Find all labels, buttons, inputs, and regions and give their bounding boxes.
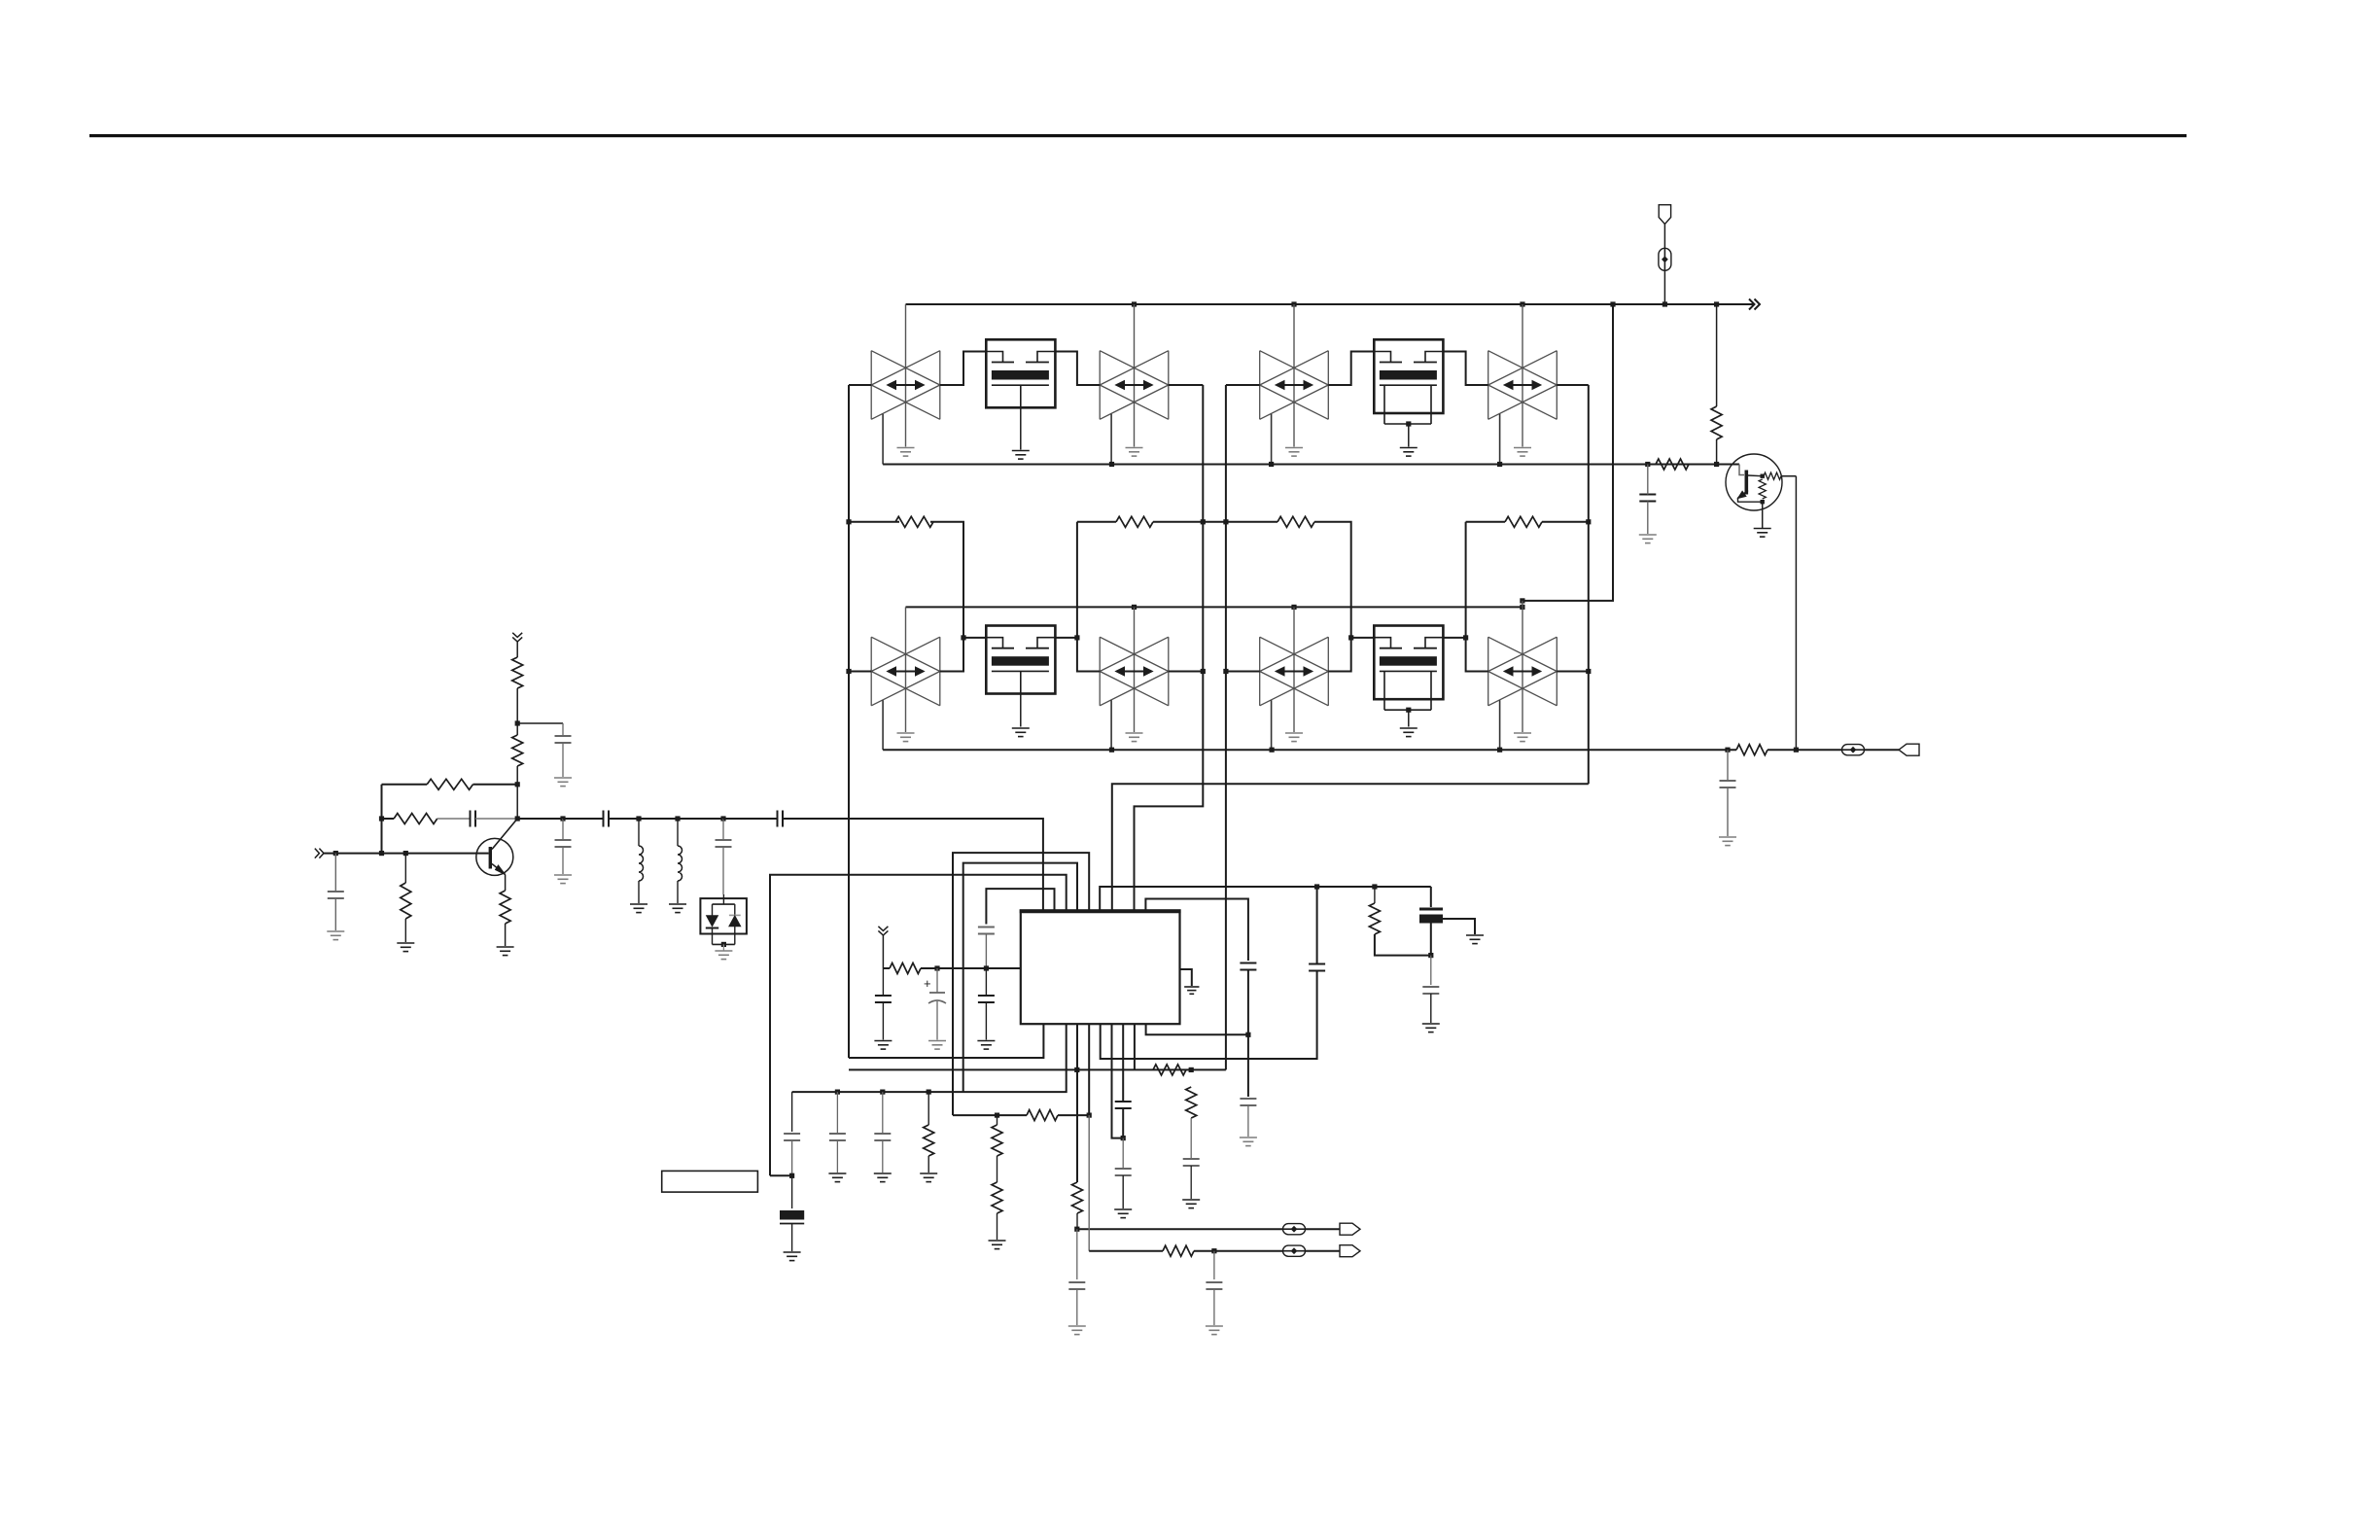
dual-gate MOSFET Q1 bbox=[986, 339, 1055, 407]
ground R5a bbox=[497, 947, 514, 956]
wire C13 gnd bbox=[791, 1224, 793, 1252]
wire pin1143 jog bbox=[1112, 1024, 1124, 1137]
wire bus to SW5 center bbox=[905, 607, 907, 732]
wire right loop top bbox=[1145, 899, 1248, 962]
connector P3 bbox=[1340, 1223, 1360, 1235]
junction mid/vert1634 bbox=[1586, 519, 1591, 524]
wire mid line C bbox=[1466, 521, 1505, 523]
capacitor C13 tantalum bbox=[780, 1210, 804, 1224]
capacitor C14 bbox=[829, 1134, 846, 1140]
junction output/Q5 bbox=[1794, 748, 1799, 752]
ground C15 bbox=[874, 1173, 892, 1182]
ground L2 bbox=[669, 904, 686, 913]
ground SW8 bbox=[1514, 733, 1531, 742]
wire Q5 emitter to ground bbox=[1762, 502, 1764, 528]
wire C11 gnd bbox=[936, 1001, 938, 1040]
wire C18 gnd bbox=[1213, 1289, 1215, 1325]
transistor Q6 circle bbox=[476, 838, 513, 875]
node row2 bus SW6 bbox=[1132, 605, 1137, 610]
wire C13 top bbox=[791, 1175, 793, 1208]
junction y1147 R12 bbox=[995, 1113, 999, 1118]
wire Q6 emitter diag bbox=[492, 864, 506, 875]
IC right pin to ground bbox=[1180, 969, 1192, 986]
wire output1 to pill bbox=[1767, 749, 1841, 751]
ground SW3 bbox=[1285, 448, 1303, 457]
junction Q5 emitter bbox=[1761, 500, 1765, 504]
junction SW6 right bbox=[1201, 669, 1206, 674]
junction SW5 left bbox=[846, 669, 851, 674]
bowtie switch SW6 bbox=[1100, 637, 1169, 706]
svg-text:+: + bbox=[924, 976, 931, 991]
resistor Q5 internal horizontal bbox=[1764, 472, 1781, 479]
ground C25 bbox=[1240, 1137, 1257, 1146]
wire row1 bottom bus bbox=[883, 464, 1739, 466]
wire drop SW1 to lower bus bbox=[882, 414, 884, 465]
wire y994 segB bbox=[921, 967, 1021, 969]
wire main segD bbox=[517, 818, 563, 820]
wire R10 gnd bbox=[927, 1156, 929, 1172]
wire Q5 collector bbox=[1748, 474, 1763, 477]
resistor R9 bbox=[890, 963, 921, 974]
wire bias vertical bbox=[381, 785, 383, 854]
junction SW8 right bbox=[1586, 669, 1591, 674]
resistor R21 on bus bbox=[1656, 459, 1689, 470]
junction bottom bus SW2 bbox=[1109, 462, 1114, 467]
wire R5a gnd bbox=[505, 924, 507, 946]
arrow supply VB1 bbox=[512, 633, 522, 642]
wire R2a-R3a bbox=[516, 688, 518, 735]
ground C18 bbox=[1206, 1326, 1223, 1335]
arrow off-page right bbox=[1749, 299, 1760, 310]
junction collector node bbox=[515, 816, 520, 821]
wire C6 to D1 bbox=[722, 847, 724, 894]
resistor R1a bbox=[401, 883, 411, 919]
junction gate node M3 right bbox=[1074, 635, 1079, 640]
wire C15 gnd bbox=[882, 1140, 884, 1172]
wire left vertical bus x873 bbox=[848, 385, 850, 1058]
junction y912 R18 bbox=[1372, 884, 1377, 889]
wire R18 top bbox=[1374, 887, 1376, 903]
capacitor C6 bbox=[716, 840, 732, 847]
wire base Q5 bbox=[1739, 465, 1744, 475]
wire C10 top bbox=[882, 968, 884, 996]
junction SW7 left bbox=[1223, 669, 1228, 674]
wire C20 to ground bbox=[1647, 502, 1649, 535]
resistor R5a emitter bbox=[500, 891, 510, 924]
junction y1123 C14 bbox=[835, 1090, 840, 1095]
wire SW2 right lead bbox=[1169, 384, 1204, 386]
ground L1 bbox=[630, 904, 647, 913]
junction main C6 bbox=[720, 816, 725, 821]
junction RC/base vert bbox=[379, 816, 384, 821]
junction row2 bus SW8 bbox=[1520, 605, 1524, 610]
junction D1 out bbox=[721, 942, 726, 947]
junction row2 bus SW8 bbox=[1497, 748, 1502, 752]
junction L4 node bbox=[984, 965, 989, 970]
wire mid line B left vert bbox=[1076, 522, 1078, 638]
node top bus / branch to row2 bbox=[1610, 301, 1615, 306]
wire main segF bbox=[609, 818, 639, 820]
junction y1147 pin bbox=[1087, 1113, 1092, 1118]
wire pin1120 down bbox=[1088, 1024, 1090, 1115]
wire C2 gnd bbox=[562, 743, 564, 777]
wire C10 gnd bbox=[882, 1002, 884, 1040]
arrow supply VB2 bbox=[878, 927, 888, 935]
wire mid B cont bbox=[1153, 521, 1277, 523]
capacitor C4 bbox=[555, 840, 572, 847]
wire Q2 source to ground bbox=[1408, 424, 1410, 447]
wire Q2 to SW4 step bbox=[1443, 352, 1487, 386]
junction output node C21 bbox=[1725, 748, 1730, 752]
ground SW2 bbox=[1126, 448, 1143, 457]
wire row2 bottom bus bbox=[883, 749, 1736, 751]
wire pin1131 loop bbox=[1101, 971, 1317, 1060]
node top bus / SW4 bbox=[1520, 301, 1524, 306]
inductor L1 bbox=[639, 846, 644, 881]
test point pill P3 bbox=[1283, 1224, 1306, 1235]
wire C19 top bbox=[1316, 887, 1318, 964]
ground Q3 bbox=[1012, 728, 1030, 737]
ground SW4 bbox=[1514, 448, 1531, 457]
wire R12-R13 bbox=[997, 1156, 998, 1182]
ground C9 bbox=[977, 1041, 995, 1050]
wire L1 gnd bbox=[638, 881, 640, 903]
wire R15 down bbox=[1190, 1118, 1192, 1158]
wire C4 top bbox=[562, 819, 564, 840]
capacitor C9 bbox=[978, 996, 995, 1002]
wire input line bbox=[324, 853, 489, 855]
IC U1 box bbox=[1020, 910, 1181, 1024]
wire SW5 left lead bbox=[849, 671, 871, 673]
wire mid A to gate node bbox=[930, 522, 963, 638]
wire row2 bus riser bbox=[1522, 304, 1613, 601]
wire C27 gnd bbox=[1430, 994, 1432, 1023]
wire main segH bbox=[678, 818, 723, 820]
wire mid line C vert bbox=[1465, 522, 1467, 638]
junction bottom bus C node bbox=[1645, 462, 1650, 467]
ground C2 bbox=[554, 778, 572, 787]
wire L1 top bbox=[638, 819, 640, 846]
wire C25 gnd bbox=[1247, 1105, 1249, 1137]
wire C14 top bbox=[836, 1092, 838, 1134]
wire outer loop jog bbox=[770, 1174, 792, 1176]
wire D1 out bbox=[722, 944, 724, 950]
junction main L2 bbox=[675, 816, 680, 821]
wire y1147 line bbox=[953, 1114, 1027, 1116]
wire Q4 source to ground bbox=[1408, 710, 1410, 726]
wire C1 top bbox=[334, 854, 336, 892]
wire pin1166 down bbox=[1134, 1024, 1136, 1069]
junction bias cap bbox=[515, 720, 520, 725]
wire bus to SW8 center bbox=[1522, 607, 1523, 732]
wire y912 corner down bbox=[1430, 887, 1432, 907]
wire C26 tap bbox=[1443, 919, 1475, 934]
junction mid/vert1237 bbox=[1201, 519, 1206, 524]
connector flag P1 bbox=[1659, 205, 1670, 225]
wire output line B lead bbox=[1089, 1250, 1163, 1252]
junction input bias bbox=[379, 851, 384, 856]
ground D1 bbox=[715, 951, 732, 960]
junction row2 bus SW6 bbox=[1109, 748, 1114, 752]
test point pill P2 bbox=[1842, 745, 1865, 755]
wire outB cont bbox=[1194, 1250, 1282, 1252]
wire C23 top bbox=[1122, 1138, 1124, 1168]
resistor R6a series bbox=[394, 814, 437, 824]
wire C1 gnd bbox=[334, 898, 336, 930]
resistor R13 bbox=[992, 1182, 1002, 1213]
wire C9 top bbox=[985, 968, 987, 996]
wire L4 cap to node bbox=[985, 934, 987, 969]
capacitor C19 bbox=[1309, 964, 1325, 971]
wire pin1120 grey bbox=[1088, 1115, 1090, 1251]
wire D1 top bar bbox=[713, 894, 735, 904]
wire pin1178 loop bbox=[1146, 1024, 1248, 1034]
capacitor C20 bbox=[1639, 495, 1656, 502]
bowtie switch SW8 bbox=[1488, 637, 1557, 706]
capacitor C23 bbox=[1115, 1169, 1132, 1175]
wire output line A bbox=[1077, 1228, 1282, 1230]
junction input R1a bbox=[403, 851, 408, 856]
junction bottom bus SW4 bbox=[1497, 462, 1502, 467]
wire Q5 emitter bbox=[1738, 498, 1763, 502]
wire mid line B bbox=[1077, 521, 1116, 523]
capacitor C17 bbox=[1068, 1282, 1085, 1289]
wire y994 segA bbox=[883, 967, 890, 969]
junction y994 C11 bbox=[934, 965, 939, 970]
wire vert SW3-left down bbox=[1225, 385, 1227, 1069]
ground R13 bbox=[989, 1241, 1006, 1249]
junction input C1 bbox=[333, 851, 338, 856]
wire R18 out bbox=[1375, 934, 1431, 956]
ground C23 bbox=[1114, 1209, 1132, 1218]
ground Q1 bbox=[1012, 451, 1030, 460]
wire C21 top bbox=[1727, 750, 1729, 781]
resistor R10 bbox=[924, 1125, 934, 1156]
junction y1100 R15 bbox=[1189, 1067, 1194, 1072]
wire R20 bottom bbox=[1716, 439, 1718, 465]
bowtie switch SW2 bbox=[1100, 351, 1169, 420]
bowtie switch SW4 bbox=[1488, 351, 1557, 420]
resistor R17 bbox=[1163, 1245, 1194, 1256]
wire mid B to M4 gate bbox=[1314, 522, 1351, 638]
test point pill P1 bbox=[1659, 248, 1671, 270]
resistor R20 vertical bbox=[1711, 406, 1722, 439]
ground R1a bbox=[397, 943, 414, 952]
wire main segI bbox=[723, 818, 778, 820]
resistor R6 bbox=[1116, 516, 1153, 527]
wire bus to SW4 center bbox=[1522, 304, 1523, 447]
diode D1b bbox=[729, 904, 741, 944]
wire pill P4 to connector bbox=[1306, 1250, 1340, 1252]
wire drop SW4 to lower bus bbox=[1499, 414, 1501, 465]
junction bottom bus SW3 bbox=[1269, 462, 1274, 467]
node top bus / SW2 bbox=[1132, 301, 1137, 306]
diode pair D1 box bbox=[700, 898, 747, 933]
arrow input left bbox=[315, 849, 324, 858]
inductor L2 bbox=[678, 846, 682, 881]
wire bus to C20 bbox=[1647, 465, 1649, 495]
junction main L1 bbox=[636, 816, 641, 821]
capacitor C1 bbox=[328, 892, 344, 898]
wire C17 gnd bbox=[1076, 1289, 1078, 1325]
wire y1147 cont bbox=[1058, 1114, 1089, 1116]
capacitor C7 series bbox=[778, 811, 784, 827]
wire main segG bbox=[639, 818, 678, 820]
wire SW8 right lead bbox=[1557, 671, 1589, 673]
junction bottom bus R node bbox=[1714, 462, 1719, 467]
ground Q4 bbox=[1400, 728, 1417, 737]
node top bus / connector P1 bbox=[1662, 301, 1667, 306]
junction y1123 R10 bbox=[927, 1090, 931, 1095]
capacitor C3 series bbox=[471, 811, 476, 827]
wire C12 down bbox=[791, 1140, 793, 1175]
junction gate node M3 bbox=[961, 635, 965, 640]
ground C20 bbox=[1639, 535, 1657, 543]
capacitor C26 tantalum bbox=[1419, 909, 1443, 924]
wire L2 gnd bbox=[677, 881, 679, 903]
wire C23 gnd bbox=[1122, 1175, 1124, 1208]
wire C14 gnd bbox=[836, 1140, 838, 1172]
resistor R12 bbox=[992, 1125, 1002, 1156]
connector P2 bbox=[1899, 744, 1919, 755]
wire C6 top bbox=[722, 819, 724, 840]
junction y1123 C15 bbox=[880, 1090, 885, 1095]
wire feedback line bbox=[382, 784, 428, 786]
wire outer loop top bbox=[770, 875, 1067, 1176]
wire C15 top bbox=[882, 1092, 884, 1134]
wire SW1 to Q1 gate step bbox=[940, 352, 987, 386]
junction x1284 bbox=[1245, 1032, 1250, 1037]
wire Q3 to SW6 step bbox=[1055, 638, 1100, 672]
wire R13 gnd bbox=[997, 1213, 998, 1240]
wire Q1 to SW2 step bbox=[1055, 352, 1100, 386]
wire SW5 to Q3 gate step bbox=[940, 638, 987, 672]
page top rule bbox=[89, 134, 2187, 137]
wire Q6 collector diag bbox=[492, 819, 517, 850]
wire y1123 left drop bbox=[791, 1092, 793, 1132]
ground C16 bbox=[1182, 1200, 1200, 1208]
resistor Q5 internal vertical bbox=[1759, 479, 1766, 499]
wire loop L1 top bbox=[953, 853, 1089, 1115]
wire Q3 source to ground bbox=[1020, 694, 1022, 727]
capacitor C5 series bbox=[604, 811, 610, 827]
wire C27 top bbox=[1430, 956, 1432, 985]
capacitor C8 on L4 bbox=[978, 927, 995, 934]
ground SW1 bbox=[897, 448, 915, 457]
wire drop SW3 to lower bus bbox=[1271, 414, 1273, 465]
junction gate node M4 right bbox=[1463, 635, 1468, 640]
resistor R7 bbox=[1277, 516, 1314, 527]
wire drop SW2 to lower bus bbox=[1110, 414, 1112, 465]
ground C11 bbox=[928, 1041, 946, 1050]
wire R1a top bbox=[404, 854, 406, 883]
bowtie switch SW5 bbox=[871, 637, 940, 706]
junction row2 bus SW7 bbox=[1270, 748, 1275, 752]
node top bus / SW3 bbox=[1291, 301, 1296, 306]
wire R1a gnd bbox=[404, 919, 406, 942]
dual-gate MOSFET Q4 bbox=[1374, 626, 1443, 713]
junction pin1155 bbox=[1121, 1136, 1126, 1140]
resistor R18 bbox=[1369, 903, 1380, 934]
junction mid/vert1261 bbox=[1223, 519, 1228, 524]
wire Q5 output down bbox=[1795, 476, 1797, 751]
ground SW5 bbox=[897, 733, 915, 742]
wire outB cap down bbox=[1213, 1251, 1215, 1279]
resistor R11 bbox=[1027, 1110, 1058, 1121]
capacitor C16 bbox=[1183, 1159, 1200, 1166]
transistor Q6 base bar bbox=[489, 847, 492, 869]
junction output B bbox=[1211, 1248, 1216, 1253]
diode D1a bbox=[706, 904, 718, 944]
capacitor C12 bbox=[784, 1134, 800, 1140]
wire pin1155 down bbox=[1122, 1024, 1124, 1102]
transistor Q5 circle bbox=[1726, 454, 1782, 510]
wire Q4 to SW8 step bbox=[1443, 638, 1487, 672]
capacitor C27 bbox=[1422, 987, 1439, 994]
ground C10 bbox=[874, 1041, 892, 1050]
wire main segC bbox=[475, 818, 517, 820]
junction gate node M4 bbox=[1348, 635, 1353, 640]
wire y1100 line bbox=[849, 1068, 1226, 1070]
wire C11 top bbox=[936, 968, 938, 993]
wire drop SW7 to lower bus bbox=[1271, 700, 1273, 750]
wire Q5 to right bbox=[1781, 475, 1796, 477]
wire feedback cont bbox=[473, 784, 518, 786]
wire main segB bbox=[437, 818, 471, 820]
wire R3a bottom bbox=[516, 766, 518, 819]
wire SW7 left lead bbox=[1226, 671, 1260, 673]
wire R10 top bbox=[927, 1092, 929, 1125]
capacitor C10 bbox=[875, 996, 892, 1002]
capacitor C18 bbox=[1206, 1282, 1222, 1289]
wire R20 top bbox=[1716, 304, 1718, 406]
wire y912 line bbox=[1100, 887, 1431, 910]
wire vert SW2-right down bbox=[1135, 385, 1204, 910]
resistor R8 bbox=[1505, 516, 1542, 527]
wire drop SW8 to lower bus bbox=[1499, 700, 1501, 750]
wire VB2 down bbox=[882, 935, 884, 968]
wire mid line A bbox=[849, 521, 899, 523]
bowtie switch SW3 bbox=[1260, 351, 1329, 420]
ground R10 bbox=[920, 1173, 937, 1182]
wire row2 top bus bbox=[906, 606, 1522, 608]
wire drop SW5 to lower bus bbox=[882, 700, 884, 750]
capacitor C2 bbox=[555, 736, 572, 743]
ground C21 bbox=[1719, 837, 1736, 846]
wire SW4 right lead bbox=[1557, 384, 1589, 386]
wire bus to SW7 center bbox=[1293, 607, 1295, 732]
wire C16 gnd bbox=[1190, 1166, 1192, 1199]
wire C22 down bbox=[1122, 1108, 1124, 1138]
wire pill P3 to connector bbox=[1306, 1228, 1340, 1230]
node row2 bus SW7 bbox=[1291, 605, 1296, 610]
wire D1 bottom bar bbox=[713, 943, 735, 945]
wire x873 to IC pin bbox=[849, 1024, 1043, 1058]
junction output A bbox=[1074, 1227, 1079, 1232]
dual-gate MOSFET Q3 bbox=[986, 626, 1055, 694]
wire SW3 to Q2 gate step bbox=[1328, 352, 1374, 386]
capacitor C21 bbox=[1720, 781, 1736, 787]
bowtie switch SW7 bbox=[1260, 637, 1329, 706]
wire SW7 to Q4 gate step bbox=[1328, 638, 1374, 672]
wire pill to bus bbox=[1663, 270, 1665, 304]
wire bus to SW3 center bbox=[1293, 304, 1295, 447]
wire flag to pill bbox=[1663, 225, 1665, 249]
capacitor C25 bbox=[1240, 1099, 1256, 1105]
resistor R2a bbox=[512, 657, 523, 688]
wire loop L2 top bbox=[963, 863, 1077, 1093]
wire R16 out bbox=[1076, 1213, 1078, 1229]
